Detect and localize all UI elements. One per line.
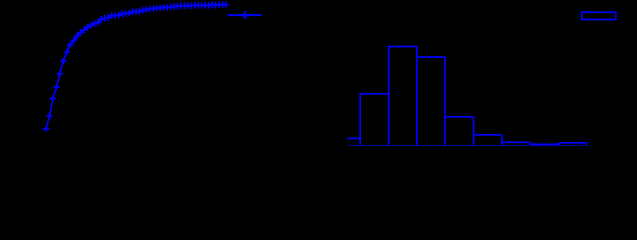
left plot: legend sample line with plus marker xyxy=(228,14,262,16)
right plot: histogram box outlines xyxy=(347,47,587,146)
right plot: legend box sample xyxy=(582,12,616,19)
left plot: plus markers xyxy=(43,1,230,132)
right plot: histogram baseline (dim) xyxy=(347,145,587,147)
left plot: data curve line xyxy=(46,5,226,129)
